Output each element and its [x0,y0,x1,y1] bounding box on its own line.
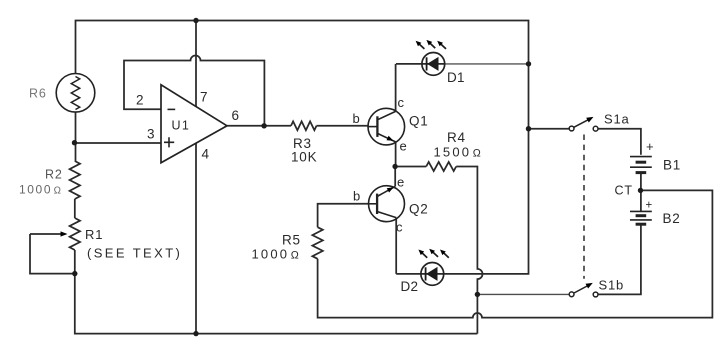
svg-text:S1a: S1a [604,112,630,127]
svg-text:b: b [353,111,361,126]
svg-text:R4: R4 [447,130,466,145]
svg-text:c: c [398,95,405,110]
svg-text:S1b: S1b [599,278,625,293]
svg-text:R2: R2 [45,168,63,182]
svg-text:D1: D1 [447,70,465,85]
svg-text:(SEE TEXT): (SEE TEXT) [87,246,182,261]
svg-text:c: c [396,220,403,235]
svg-text:R5: R5 [282,233,301,248]
svg-text:b: b [353,189,361,204]
svg-text:1000Ω: 1000Ω [19,183,63,197]
svg-text:U1: U1 [172,119,191,133]
svg-text:6: 6 [232,108,240,123]
svg-text:D2: D2 [401,279,419,294]
svg-text:10K: 10K [291,150,317,165]
svg-text:4: 4 [202,147,210,162]
svg-text:+: + [646,200,654,212]
svg-text:CT: CT [615,184,633,198]
svg-text:2: 2 [136,93,144,108]
svg-text:7: 7 [200,90,208,105]
svg-text:3: 3 [147,127,155,142]
svg-text:R6: R6 [29,87,47,101]
svg-text:R1: R1 [85,227,103,242]
svg-text:e: e [397,175,405,190]
svg-text:Q1: Q1 [409,114,429,129]
svg-text:+: + [646,139,654,154]
svg-text:1500Ω: 1500Ω [434,145,483,160]
svg-text:B2: B2 [663,211,681,226]
svg-text:e: e [400,139,408,154]
svg-text:Q2: Q2 [409,202,429,217]
svg-text:1000Ω: 1000Ω [252,247,301,262]
svg-text:B1: B1 [663,158,681,173]
